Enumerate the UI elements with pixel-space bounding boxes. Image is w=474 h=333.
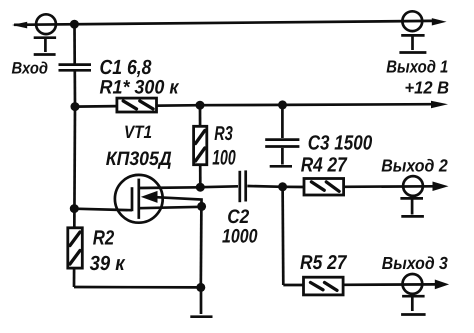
svg-text:Выход 1: Выход 1 [386,57,448,77]
svg-text:Вход: Вход [12,60,49,78]
capacitor C3 lead from rail [281,105,284,138]
connector X1 (Вход) circle [36,14,56,34]
junction: drain node (R3 / drain / C2) [196,183,205,192]
wire: ground stub [200,287,203,314]
wire: +12V rail to arrow [200,104,432,105]
wire: output node to R4 [283,185,305,188]
svg-text:100: 100 [212,147,236,170]
arrowhead Выход 3 [435,280,449,290]
capacitor C3 bottom plate [265,145,299,148]
wire: R4 to Выход 2 [344,185,433,188]
VT1 source lead [139,207,202,208]
svg-text:R1* 300 к: R1* 300 к [100,77,180,99]
capacitor C3 lead to chassis [281,148,284,165]
wire: C1 to gate node [73,71,76,107]
arrowhead +12V rail [431,101,448,108]
svg-text:R5 27: R5 27 [300,252,347,274]
wire: main top line from Вход to Выход 1 [14,21,432,25]
R2 hatch strokes [70,232,80,246]
wire: drain node to C2 [200,185,238,189]
connector X4 shell upper bar [402,295,425,298]
capacitor C3 top plate [265,138,299,141]
connector X2 shell lower bar [399,51,426,54]
connector X3 (Выход 2) circle [403,176,423,196]
junction: output node (C2 / R4 / R5 branch) [278,182,287,191]
resistor R3 box [194,126,207,164]
connector X4 (Выход 3) circle [403,274,423,294]
connector X2 shell stem [411,36,414,50]
svg-text:R3: R3 [214,123,233,145]
R3 hatch strokes [196,131,205,144]
connector X4 shell stem [411,297,414,311]
connector X3 shell stem [411,199,414,215]
connector X2 shell upper bar [401,34,424,37]
capacitor C1 bottom plate [59,69,92,72]
VT1 substrate lead [156,197,202,206]
R1 hatch strokes [123,101,136,109]
connector X2 (Выход 1) circle [402,11,422,31]
svg-text:С1 6,8: С1 6,8 [100,56,153,79]
connector X1 shell upper bar [34,36,56,39]
svg-text:КП305Д: КП305Д [106,148,172,170]
connector X4 shell lower bar [401,313,426,316]
VT1 drain lead [139,186,201,189]
resistor R2 box [68,228,83,268]
junction: gate node lower (gate lead / R2) [70,204,79,213]
resistor R5 box [304,277,344,295]
arrowhead Выход 2 [433,182,449,192]
capacitor C1 top plate [59,63,92,66]
svg-text:R2: R2 [93,226,115,249]
wire: source node down to ground node [199,206,202,287]
transistor VT1 circle [115,175,163,223]
svg-text:39 к: 39 к [90,252,126,275]
resistor R4 box [304,179,344,196]
VT1 gate electrode line [131,187,134,211]
VT1 substrate arrowhead [141,191,158,203]
svg-text:С3 1500: С3 1500 [308,132,373,155]
connector X3 shell upper bar [400,197,423,200]
wire: output node down to R5 row [281,187,284,285]
junction: top line / C1 branch [70,20,79,29]
svg-text:Выход 3: Выход 3 [382,253,448,273]
chassis ground bar under C3 [270,165,292,168]
svg-text:+12 В: +12 В [405,77,450,97]
junction: ground node [196,283,205,292]
junction: rail / C3 [278,100,287,109]
junction: source/substrate node [197,202,206,211]
wire: R5 to Выход 3 [344,283,435,286]
R5 hatch strokes [311,283,324,290]
wire: corner to R5 [283,284,305,287]
connector X1 shell stem [44,38,47,52]
svg-text:R4 27: R4 27 [301,154,348,177]
svg-text:1000: 1000 [222,226,258,248]
wire: gate node to R3 node (+12V rail left part) [75,105,200,106]
connector X1 shell lower bar [34,53,56,56]
R4 hatch strokes [311,182,324,190]
junction: rail / R3 [196,101,205,110]
wire: top junction down to C1 [73,24,76,63]
VT1 channel line [137,179,140,219]
svg-text:VT1: VT1 [124,122,152,142]
wire: R3 vertical leads (rail to drain node) [199,105,202,187]
wire: gate vertical line down through R2 to bottom [74,107,75,287]
arrowhead at Вход (left end of top line) [12,22,27,29]
capacitor C2 right plate [244,170,247,201]
wire: C2 to output node [247,185,282,189]
arrowhead at Выход 1 (right end of top line) [432,18,447,25]
capacitor C2 left plate [238,171,241,202]
chassis ground bar (bottom) [190,315,212,318]
VT1 gate lead to gate node [74,209,132,211]
junction: gate node (C1 / R1 / gate line) [71,102,80,111]
resistor R1 box [117,98,157,112]
connector X3 shell lower bar [401,215,424,218]
wire: bottom ground wire [74,286,201,289]
svg-text:Выход 2: Выход 2 [381,156,448,176]
